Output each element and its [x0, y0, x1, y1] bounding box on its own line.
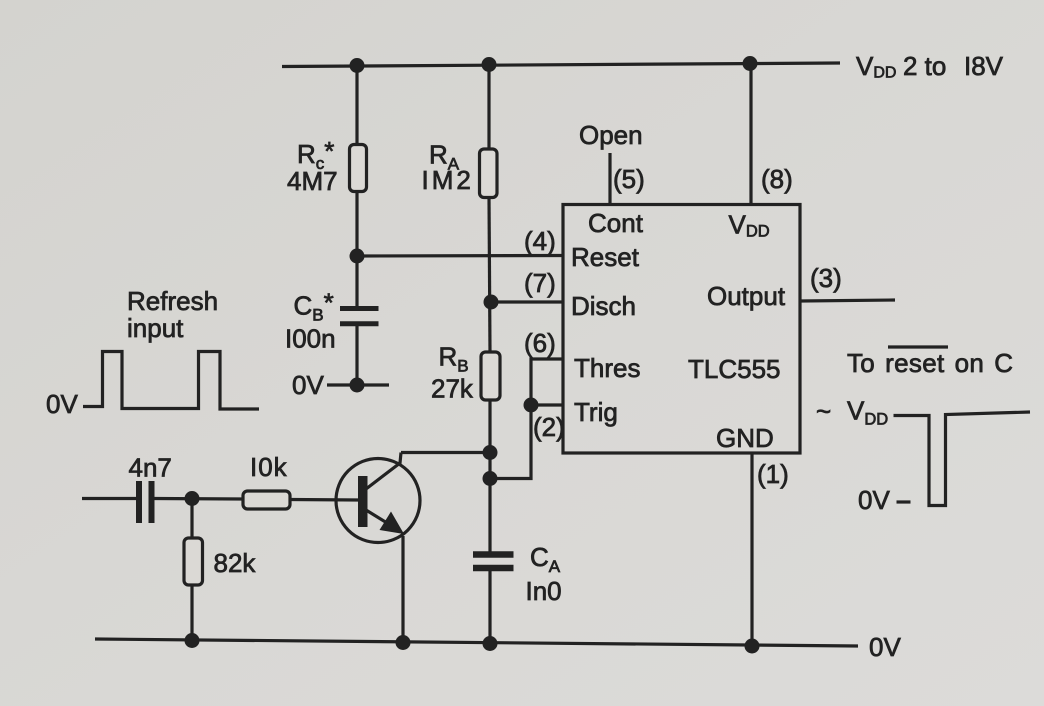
- svg-text:TLC555: TLC555: [688, 354, 781, 384]
- svg-text:GND: GND: [716, 423, 774, 453]
- node junction emitter rail: [396, 635, 411, 650]
- capacitor CB plate2: [340, 321, 379, 326]
- node junction CB 0V: [350, 378, 365, 393]
- transistor Q1 emitter arrowhead: [380, 512, 405, 535]
- wire collector to CA column: [401, 451, 490, 454]
- node junction trig-CA: [483, 471, 498, 486]
- node junction collector: [483, 445, 498, 460]
- svg-text:0V: 0V: [869, 632, 901, 662]
- node junction top rail pin8: [743, 56, 758, 71]
- svg-text:Cont: Cont: [588, 208, 644, 238]
- svg-text:Thres: Thres: [574, 353, 640, 383]
- wire 0V bottom rail: [95, 639, 858, 646]
- transistor Q1 emitter lead: [366, 510, 400, 531]
- svg-text:(5): (5): [613, 164, 645, 194]
- wire VDD top rail: [282, 63, 840, 67]
- wire 0V dash right waveform: [897, 500, 911, 503]
- wire 82k bottom to rail: [190, 585, 193, 641]
- svg-text:~: ~: [816, 396, 831, 426]
- resistor 82k box: [184, 538, 203, 585]
- svg-text:4M7: 4M7: [287, 166, 338, 196]
- svg-text:Open: Open: [579, 120, 643, 150]
- svg-text:(7): (7): [524, 268, 556, 298]
- IC U1 TLC555 box: [563, 205, 800, 454]
- wire emitter down to rail: [401, 536, 404, 643]
- capacitor CA plate1: [473, 551, 514, 558]
- wire trig down to CA node: [490, 405, 531, 479]
- svg-text:Reset: Reset: [571, 242, 640, 272]
- wire disch line: [491, 300, 563, 303]
- wire 0V stub: [327, 383, 389, 386]
- wire thres pin bracket: [531, 359, 563, 405]
- svg-text:(1): (1): [757, 459, 789, 489]
- wire RA top: [487, 64, 490, 152]
- svg-text:Disch: Disch: [571, 291, 636, 321]
- svg-text:I00n: I00n: [285, 324, 336, 354]
- resistor RA box: [480, 149, 498, 198]
- resistor 10k box: [243, 491, 290, 509]
- resistor Rc box: [350, 145, 367, 192]
- svg-text:Refresh: Refresh: [127, 286, 218, 316]
- svg-text:82k: 82k: [214, 548, 257, 578]
- svg-text:To reset on C: To reset on C: [847, 348, 1013, 378]
- wire input left: [82, 497, 136, 500]
- wire pin8 from rail: [749, 64, 752, 205]
- svg-text:0V: 0V: [292, 370, 324, 400]
- svg-text:27k: 27k: [431, 374, 474, 404]
- node junction 82k rail: [185, 633, 200, 648]
- wire cap to 10k: [154, 497, 243, 501]
- svg-text:(2): (2): [533, 412, 565, 442]
- svg-text:(8): (8): [761, 164, 793, 194]
- waveform output pulse: [894, 412, 1031, 506]
- capacitor CB plate1: [340, 306, 379, 311]
- node junction top rail Rc: [350, 58, 365, 73]
- node junction top rail RA: [482, 57, 497, 72]
- transistor Q1 circle: [336, 459, 420, 543]
- wire Rc bottom to reset node: [355, 191, 358, 310]
- svg-text:0V: 0V: [858, 485, 890, 515]
- capacitor CA plate2: [473, 565, 514, 572]
- transistor Q1 collector lead: [366, 453, 401, 490]
- wire pin5 open: [608, 153, 611, 204]
- svg-text:(6): (6): [524, 328, 556, 358]
- overline on reset: [888, 345, 948, 348]
- wire CB to 0V stub: [355, 326, 358, 385]
- svg-text:4n7: 4n7: [129, 453, 172, 483]
- svg-text:IM2: IM2: [422, 165, 474, 195]
- wire Rc top: [355, 65, 358, 145]
- wire CA bottom to rail: [488, 571, 491, 644]
- wire reset line: [357, 254, 563, 258]
- node junction reset/Rc: [350, 249, 365, 264]
- wire pin3 output line: [800, 300, 895, 301]
- transistor Q1 base bar: [358, 476, 368, 527]
- wire 10k to base: [290, 498, 359, 502]
- svg-text:(4): (4): [524, 226, 556, 256]
- node junction CA rail: [483, 636, 498, 651]
- wire trig pin: [531, 403, 563, 406]
- node junction thres-trig: [524, 398, 539, 413]
- wire RA bottom to disch node: [489, 196, 490, 352]
- capacitor C 4n7 plate1: [136, 481, 142, 523]
- svg-text:0V: 0V: [46, 389, 78, 419]
- waveform refresh input: [83, 352, 259, 410]
- svg-text:I0k: I0k: [250, 452, 288, 482]
- capacitor C 4n7 plate2: [149, 481, 155, 523]
- svg-text:Output: Output: [707, 281, 786, 311]
- wire pin1 gnd down: [750, 453, 753, 646]
- svg-text:input: input: [127, 313, 184, 343]
- node junction disch: [484, 295, 499, 310]
- svg-text:Trig: Trig: [574, 397, 618, 427]
- resistor RB box: [481, 352, 500, 400]
- svg-text:In0: In0: [526, 576, 562, 606]
- wire RB bottom to CA: [488, 400, 491, 552]
- node junction input-82k: [185, 491, 200, 506]
- svg-text:(3): (3): [810, 263, 842, 293]
- wire 82k top: [190, 498, 193, 538]
- node junction gnd rail: [745, 639, 760, 654]
